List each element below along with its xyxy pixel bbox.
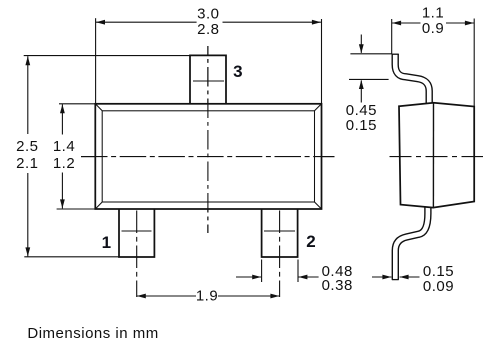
- centerline horizontal redraw over body: [81, 156, 335, 158]
- dimension 1.9 line: [137, 295, 280, 297]
- extension line left of 3.0: [95, 18, 97, 103]
- extension line 0.45 bottom: [349, 78, 389, 80]
- dimension 2.5/2.1 up arrowhead: [25, 56, 30, 65]
- dimension 0.45 up arrow: [360, 80, 362, 102]
- dimension 0.15/0.09 right arrow: [400, 276, 420, 278]
- dimension 2.5/2.1 bottom extension line: [24, 256, 119, 258]
- svg-text:1.9: 1.9: [196, 288, 218, 305]
- side view package body: [399, 103, 474, 208]
- dimension 1.4/1.2 up arrowhead: [60, 104, 65, 113]
- svg-text:Dimensions in mm: Dimensions in mm: [27, 325, 158, 342]
- centerline horizontal (front view): [81, 156, 335, 158]
- svg-text:0.9: 0.9: [422, 20, 444, 37]
- dimension 2.5/2.1 line: [27, 56, 29, 256]
- body corner bevel bottom-left: [95, 202, 102, 209]
- dimension 0.15/0.09 left arrow: [372, 276, 391, 278]
- dimension 1.4/1.2 bottom extension line: [57, 208, 96, 210]
- side view body mold parting line: [432, 103, 434, 208]
- dimension 2.5/2.1 down arrowhead: [25, 247, 30, 256]
- svg-text:3: 3: [233, 62, 242, 81]
- dimension 1.1/0.9 left arrowhead: [392, 21, 401, 26]
- dimension 3.0/2.8 line: [96, 21, 321, 23]
- dimension 0.48/0.38 right arrow: [298, 276, 318, 278]
- centerline vertical (front view, through pin 3): [207, 46, 209, 233]
- svg-text:0.38: 0.38: [322, 277, 353, 294]
- side view: top gull-wing lead (pin 3): [395, 54, 429, 106]
- svg-text:2.8: 2.8: [197, 21, 219, 38]
- pin 3 (top tab): [190, 55, 226, 103]
- body corner bevel bottom-right: [315, 202, 322, 209]
- svg-text:2: 2: [306, 232, 315, 251]
- side view centerline: [390, 156, 484, 158]
- bottom lead tip cap: [392, 279, 399, 281]
- dimension 1.1/0.9 right arrowhead: [465, 21, 474, 26]
- extension line 0.45 top: [350, 53, 392, 55]
- svg-text:2.1: 2.1: [16, 155, 38, 172]
- pin 3 center tick: [193, 80, 224, 82]
- body corner bevel top-right: [315, 104, 322, 111]
- svg-text:1: 1: [102, 233, 111, 252]
- dimension 0.45 down arrow: [360, 35, 362, 53]
- dimension 1.4/1.2 down arrowhead: [60, 199, 65, 208]
- dimension 2.5/2.1 top extension line: [24, 55, 190, 57]
- extension line pin2 left for 0.48: [261, 260, 263, 283]
- dimension 3.0/2.8 left arrowhead: [96, 20, 105, 25]
- svg-text:3.0: 3.0: [197, 5, 219, 22]
- pin 2 (bottom right tab): [262, 209, 298, 257]
- dimension 1.4/1.2 top extension line: [59, 103, 95, 105]
- dimension 3.0/2.8 right arrowhead: [312, 20, 321, 25]
- svg-text:0.09: 0.09: [423, 278, 454, 295]
- dimension 0.48/0.38 left arrow: [236, 276, 261, 278]
- body corner bevel top-left: [95, 104, 102, 111]
- centerline vertical redraw over body: [207, 46, 209, 233]
- svg-text:1.2: 1.2: [53, 155, 75, 172]
- dimension 1.1/0.9 line: [392, 22, 474, 24]
- dimension 1.9 right arrowhead: [270, 294, 279, 299]
- top lead tip cap: [392, 53, 399, 55]
- extension line left of 1.1: [391, 19, 393, 54]
- pin 1 (bottom left tab): [119, 209, 154, 257]
- dimension 1.9 left arrowhead: [137, 294, 146, 299]
- side view: bottom gull-wing lead (pins 1/2): [395, 207, 428, 280]
- package body front view inner outline: [102, 111, 314, 202]
- centerline pin 2: [279, 211, 281, 298]
- svg-text:2.5: 2.5: [16, 138, 38, 155]
- extension line pin2 right for 0.48: [297, 260, 299, 283]
- extension line right of 1.1: [473, 19, 475, 107]
- extension line right of 3.0: [321, 19, 323, 104]
- centerline pin 1: [136, 211, 138, 298]
- dimension 1.4/1.2 line: [61, 104, 63, 208]
- svg-text:1.1: 1.1: [422, 4, 444, 21]
- pin 2 center tick: [264, 230, 295, 232]
- pin 1 center tick: [122, 230, 152, 232]
- svg-text:0.15: 0.15: [346, 117, 377, 134]
- package body front view outer outline: [95, 104, 321, 209]
- svg-text:1.4: 1.4: [53, 138, 75, 155]
